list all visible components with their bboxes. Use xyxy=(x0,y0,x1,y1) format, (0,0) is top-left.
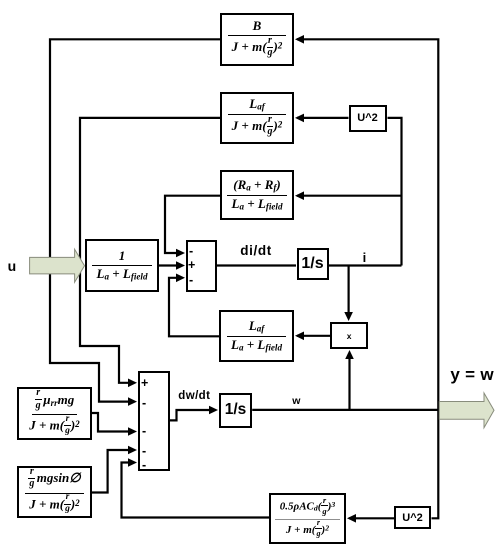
wire: i branch to Ra+Rf block xyxy=(297,195,402,197)
wire: w output line xyxy=(252,409,438,411)
output arrow y xyxy=(439,393,494,428)
label i xyxy=(363,251,367,264)
wire: arrowhead into sum S2 input 3 xyxy=(128,427,137,436)
wire: Ra+Rf output to sum S1 input 1 xyxy=(165,196,220,253)
sum S2 (dw/dt summer) xyxy=(138,371,170,472)
wire: arrowhead into bottom integrator xyxy=(209,406,218,415)
label u xyxy=(8,259,17,273)
wire: sum S1 output (di/dt) to integrator 1/s xyxy=(217,264,296,266)
sum S1 (di/dt summer) xyxy=(186,240,217,292)
wire: sum S2 output (dw/dt) to integrator xyxy=(170,410,213,420)
wire: arrowhead into multiplier bottom xyxy=(345,350,354,359)
sign S2 minus 4 xyxy=(142,459,146,472)
block rolling resistance (r/g)µrr·mg xyxy=(17,387,92,440)
label w xyxy=(292,396,300,407)
wire: arrowhead into sum S1 input 3 xyxy=(176,274,185,283)
label di/dt xyxy=(240,244,272,258)
block (Ra+Rf)/(La+Lfield) xyxy=(220,170,294,220)
wire: arrowhead into Laf torque block xyxy=(295,114,304,123)
wire: grade block to sum S2 input 4 xyxy=(92,450,132,493)
block B/(J+m(r/g)^2) damping gain xyxy=(220,13,294,66)
wire: arrowhead into multiplier top xyxy=(344,312,353,321)
wire: arrowhead into sum S2 input 1 xyxy=(128,379,137,388)
wire: i line from integrator xyxy=(329,264,402,266)
sign S2 minus 1 xyxy=(142,397,146,410)
label dw/dt xyxy=(178,391,210,403)
wire: B block output to sum S2 input 2 xyxy=(50,39,220,401)
wire: arrowhead into sum S2 input 2 xyxy=(128,397,137,406)
wire: right feedback vertical (w to B block) xyxy=(297,39,438,410)
wire: bottom U^2 output to drag block xyxy=(349,517,394,519)
wire: back-emf term to sum S1 input 3 xyxy=(169,278,219,337)
wire: right vertical down to bottom U^2 xyxy=(432,410,439,518)
block Laf/(J+m(r/g)^2) torque gain xyxy=(220,92,294,144)
multiplier x block xyxy=(330,322,368,349)
sign S2 minus 3 xyxy=(142,445,146,458)
wire: arrowhead into drag block xyxy=(347,514,356,523)
wire: Laf torque block output to sum S2 input 1 xyxy=(80,118,220,383)
wire: arrowhead into Ra+Rf block xyxy=(295,191,304,200)
wire: rolling resistance block to sum S2 input 3 xyxy=(92,413,132,432)
block grade (r/g)mgsin0 xyxy=(17,466,92,518)
wire: i branch down to multiplier xyxy=(348,266,350,317)
wire: arrowhead into Laf/(La+Lfield) block xyxy=(295,332,304,341)
sign S1 plus xyxy=(188,259,195,272)
label y = w xyxy=(450,366,494,383)
sign S1 minus 2 xyxy=(189,274,193,287)
sign S2 plus xyxy=(141,377,148,390)
block U^2 bottom xyxy=(394,506,431,529)
wire: arrowhead into sum S2 input 5 xyxy=(128,458,137,467)
wire: arrowhead into sum S1 input 1 xyxy=(176,249,185,258)
block 1/(La+Lfield) xyxy=(85,239,159,292)
block U^2 top xyxy=(349,105,387,132)
block aerodynamic drag 0.5pACd(r/g)^3 xyxy=(269,493,346,544)
input arrow u xyxy=(30,249,85,282)
integrator 1/s bottom xyxy=(219,393,252,429)
wire: 1/(La+Lfield) output to sum S1 input 2 xyxy=(159,264,180,266)
wire: multiplier output to Laf/(La+Lfield) block xyxy=(297,335,330,337)
wire: arrowhead into B block xyxy=(295,35,304,44)
integrator 1/s top xyxy=(297,248,329,280)
wire: arrowhead into sum S1 input 2 xyxy=(176,261,185,270)
wire: w branch up into multiplier bottom xyxy=(348,355,350,410)
wire: arrowhead into sum S2 input 4 xyxy=(128,446,137,455)
wire: U^2 top output to Laf torque block xyxy=(297,117,349,119)
wire: drag block output to sum S2 input 5 xyxy=(122,463,270,518)
block Laf/(La+Lfield) back-emf xyxy=(219,310,294,363)
sign S1 minus 1 xyxy=(189,245,193,258)
wire: i signal up into U^2 top xyxy=(388,118,402,266)
sign S2 minus 2 xyxy=(142,425,146,438)
